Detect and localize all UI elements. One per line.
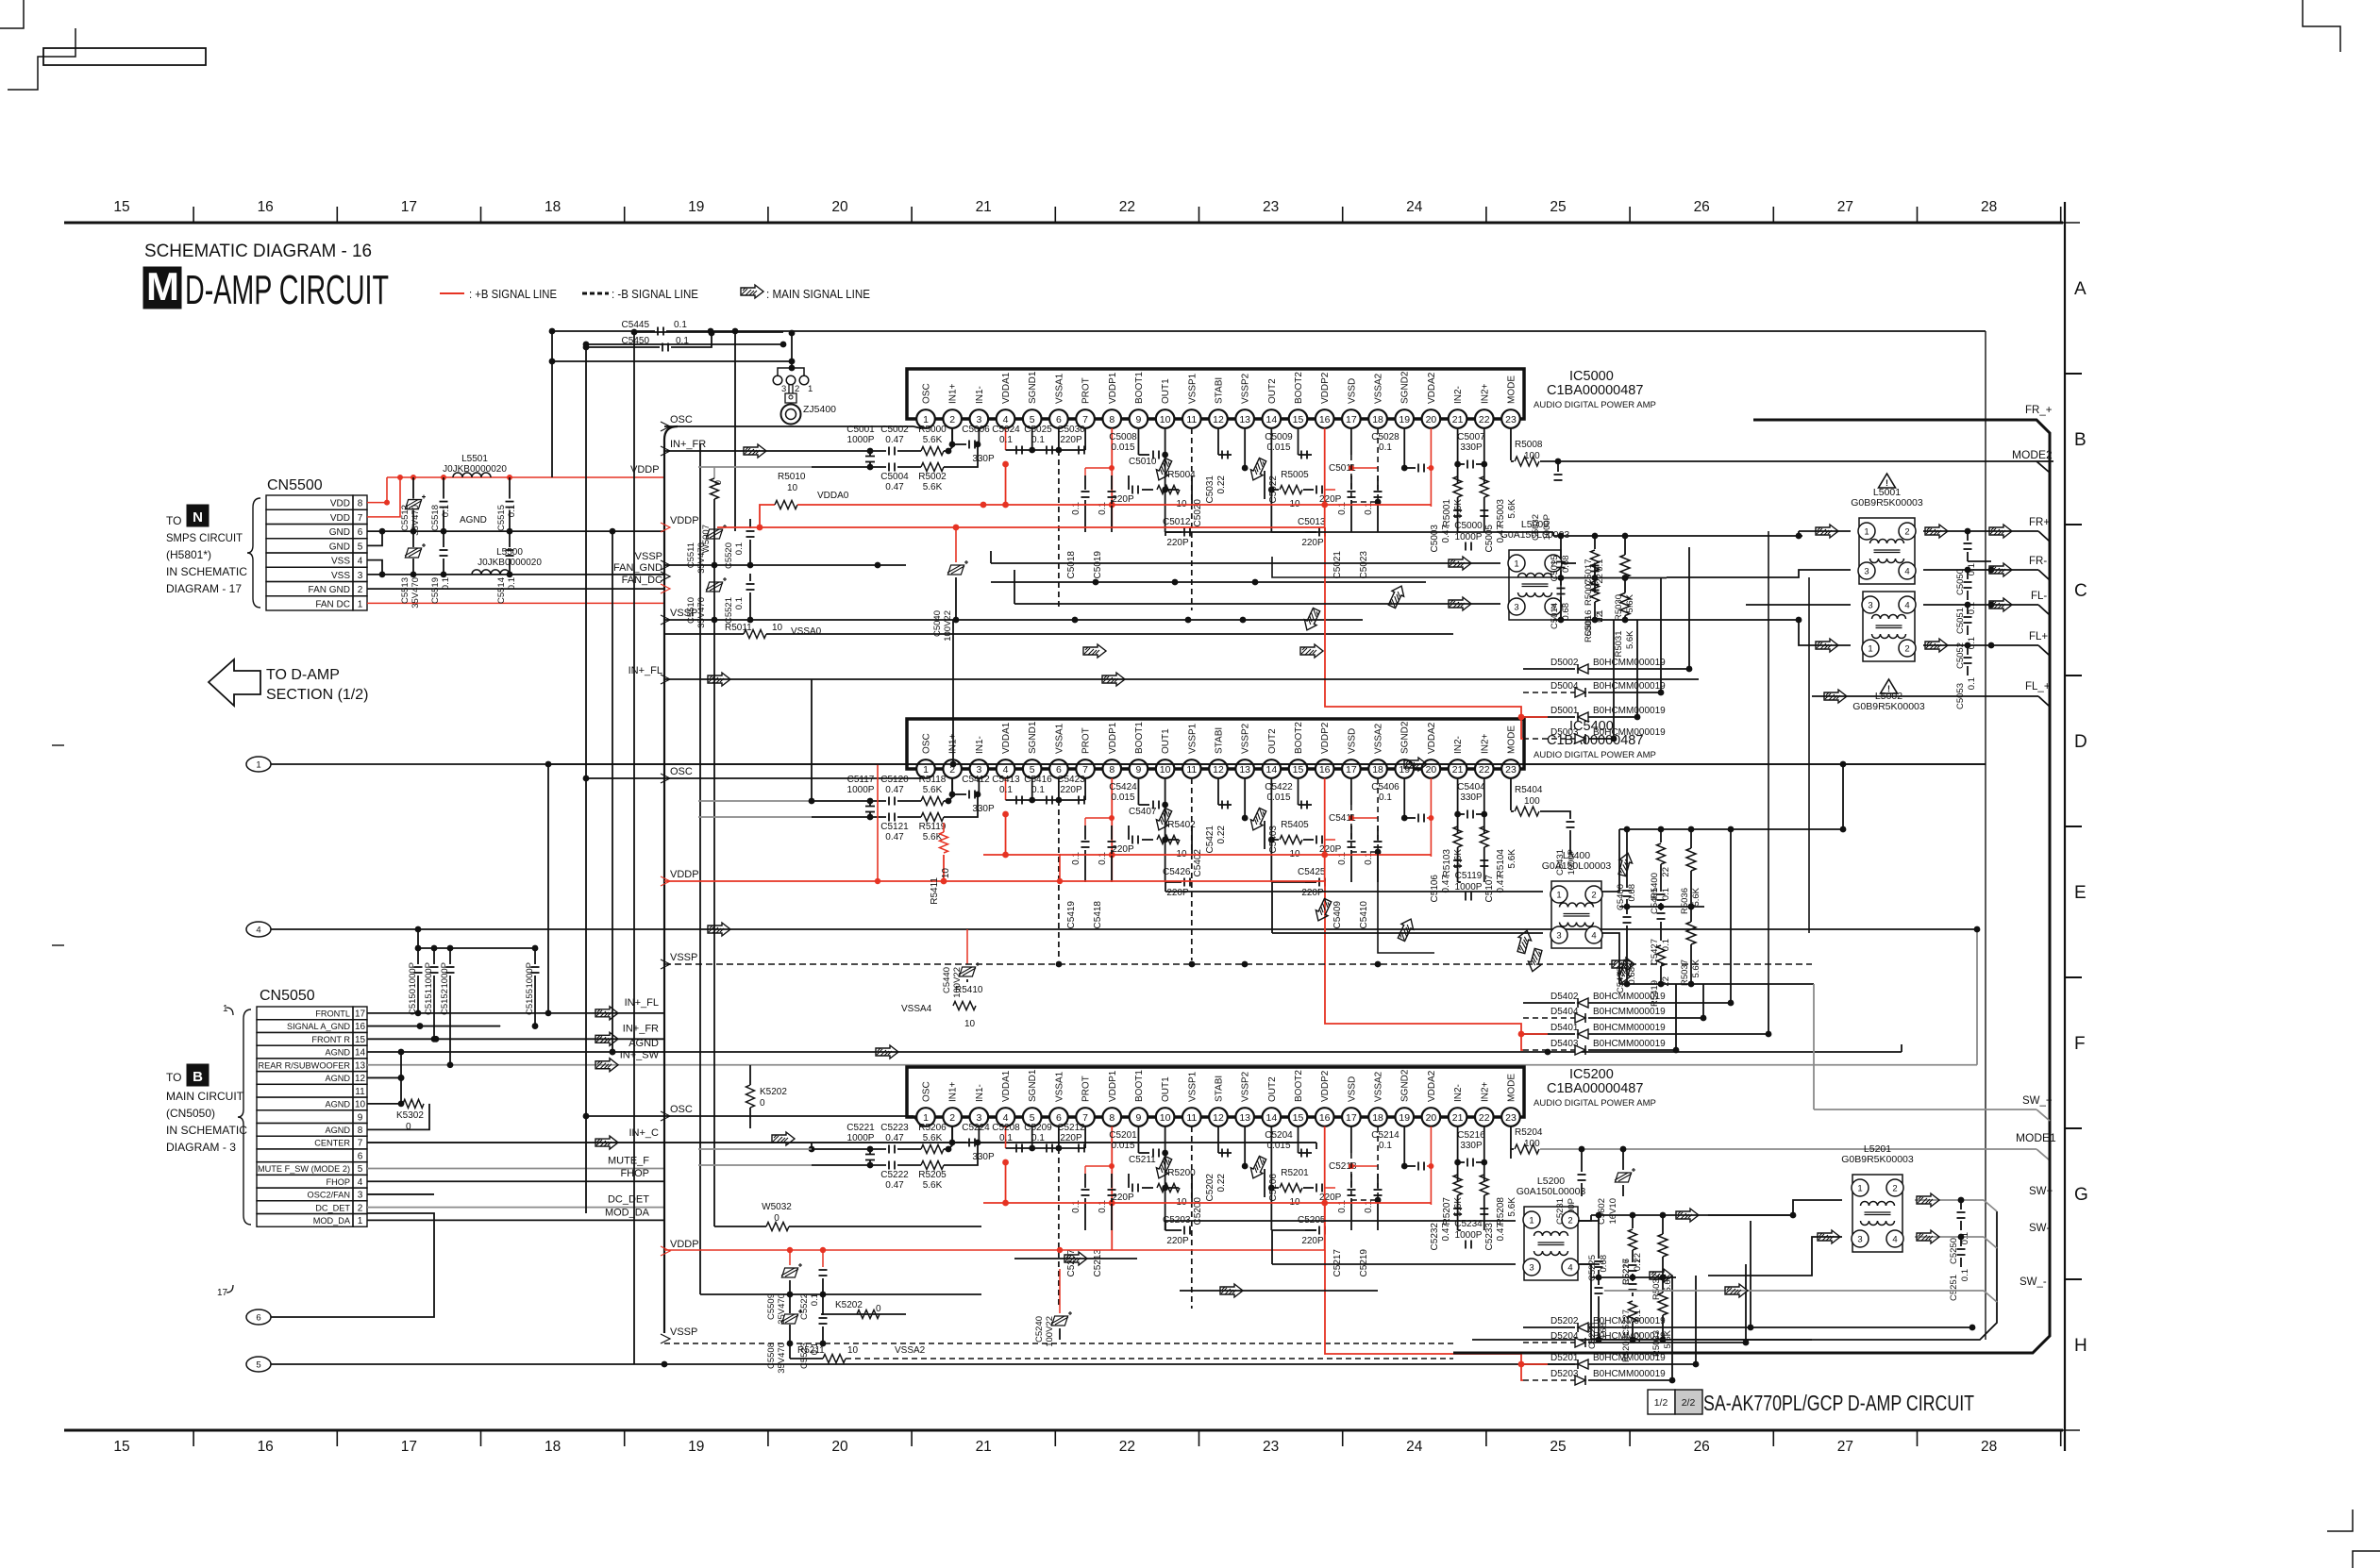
svg-text:27: 27 xyxy=(1837,1439,1853,1455)
svg-text:MODE: MODE xyxy=(1506,375,1517,404)
svg-text:100V22: 100V22 xyxy=(943,610,953,642)
svg-text:19: 19 xyxy=(688,199,704,215)
svg-text:R5036: R5036 xyxy=(1680,888,1690,914)
svg-text:R5118: R5118 xyxy=(919,775,947,785)
svg-text:1: 1 xyxy=(1868,644,1872,655)
svg-text:BOOT1: BOOT1 xyxy=(1134,372,1145,404)
svg-text:0.68: 0.68 xyxy=(1561,603,1571,621)
svg-text:5.6K: 5.6K xyxy=(923,785,943,795)
svg-text:VSSP2: VSSP2 xyxy=(1241,373,1251,404)
svg-text:REAR R/SUBWOOFER: REAR R/SUBWOOFER xyxy=(259,1060,351,1070)
svg-text:23: 23 xyxy=(1263,199,1279,215)
svg-text:3: 3 xyxy=(1868,601,1872,611)
svg-text:VSSD: VSSD xyxy=(1347,728,1357,754)
svg-text:VSSP: VSSP xyxy=(670,952,697,963)
svg-text:0.1: 0.1 xyxy=(507,505,517,517)
svg-text:28: 28 xyxy=(1981,1439,1997,1455)
svg-text:5: 5 xyxy=(358,1164,363,1175)
svg-text:B0HCMM000019: B0HCMM000019 xyxy=(1593,1331,1666,1342)
svg-text:2: 2 xyxy=(1904,644,1909,655)
svg-text:28: 28 xyxy=(1981,199,1997,215)
svg-text:23: 23 xyxy=(1505,764,1517,776)
svg-text:330P: 330P xyxy=(1460,442,1483,453)
svg-text:C5117: C5117 xyxy=(847,775,875,785)
svg-text:AGND: AGND xyxy=(325,1074,350,1083)
svg-text:5.6K: 5.6K xyxy=(1507,1197,1517,1217)
svg-text:C5216: C5216 xyxy=(1457,1130,1485,1141)
svg-text:VSSA0: VSSA0 xyxy=(791,626,822,637)
svg-text:0: 0 xyxy=(713,480,724,485)
svg-text:0.1: 0.1 xyxy=(1071,852,1081,865)
svg-text:24: 24 xyxy=(1406,199,1423,215)
svg-text:G0B9R5K00003: G0B9R5K00003 xyxy=(1852,701,1925,712)
svg-text:17: 17 xyxy=(217,1288,228,1298)
svg-text:C5018: C5018 xyxy=(1066,551,1077,579)
svg-text:0.1: 0.1 xyxy=(1364,1200,1374,1213)
svg-text:FHOP: FHOP xyxy=(326,1177,350,1187)
svg-text:16: 16 xyxy=(258,1439,274,1455)
svg-text:MODE: MODE xyxy=(1506,726,1517,754)
svg-text:C5250: C5250 xyxy=(1949,1238,1959,1264)
svg-text:13: 13 xyxy=(1239,764,1250,776)
svg-text:AGND: AGND xyxy=(325,1126,350,1135)
svg-text:FL_+: FL_+ xyxy=(2025,681,2051,692)
svg-text:21: 21 xyxy=(1452,1112,1464,1124)
svg-text:0.47: 0.47 xyxy=(1496,875,1506,893)
svg-text:0.1: 0.1 xyxy=(1595,559,1605,572)
svg-text:VDDP1: VDDP1 xyxy=(1108,372,1118,404)
svg-text:0.1: 0.1 xyxy=(1031,785,1045,795)
svg-text:IN+_FR: IN+_FR xyxy=(623,1023,659,1034)
svg-text:16: 16 xyxy=(258,199,274,215)
svg-text:FAN_GND: FAN_GND xyxy=(613,562,662,574)
svg-text:C5440: C5440 xyxy=(942,967,952,993)
svg-text:0.68: 0.68 xyxy=(1599,1255,1609,1273)
svg-text:SIGNAL A_GND: SIGNAL A_GND xyxy=(287,1022,350,1031)
svg-text:C5422: C5422 xyxy=(1265,782,1293,792)
svg-text:0.47: 0.47 xyxy=(885,482,904,492)
svg-text:MAIN CIRCUIT: MAIN CIRCUIT xyxy=(166,1090,244,1103)
svg-text:C1BA00000487: C1BA00000487 xyxy=(1547,1081,1643,1096)
svg-text:8: 8 xyxy=(358,1126,363,1136)
svg-text:2: 2 xyxy=(358,1203,363,1213)
svg-text:VDDA2: VDDA2 xyxy=(1427,1070,1437,1102)
svg-text:27: 27 xyxy=(1837,199,1853,215)
svg-text:21: 21 xyxy=(976,199,992,215)
svg-text:1: 1 xyxy=(358,1216,363,1226)
svg-text:W5032: W5032 xyxy=(762,1202,792,1212)
svg-text:: MAIN SIGNAL LINE: : MAIN SIGNAL LINE xyxy=(766,287,870,301)
svg-text:IN1+: IN1+ xyxy=(948,383,959,404)
svg-text:0.1: 0.1 xyxy=(1967,677,1977,690)
svg-text:VDDA1: VDDA1 xyxy=(1001,372,1012,404)
svg-text:OSC: OSC xyxy=(670,1104,693,1115)
svg-text:22: 22 xyxy=(1595,612,1605,623)
svg-text:6: 6 xyxy=(1056,1112,1062,1124)
svg-text:BOOT2: BOOT2 xyxy=(1294,372,1304,404)
svg-text:C5513: C5513 xyxy=(400,577,411,604)
svg-text:C5024: C5024 xyxy=(992,425,1020,435)
svg-text:SMPS CIRCUIT: SMPS CIRCUIT xyxy=(166,531,243,544)
svg-text:9: 9 xyxy=(1136,1112,1142,1124)
svg-text:0.015: 0.015 xyxy=(1266,792,1290,803)
svg-text:22: 22 xyxy=(1661,976,1671,987)
svg-text:0.1: 0.1 xyxy=(734,542,745,555)
svg-text:SGND2: SGND2 xyxy=(1400,371,1411,404)
svg-text:0.1: 0.1 xyxy=(1364,852,1374,865)
svg-text:VSSA1: VSSA1 xyxy=(1054,723,1064,754)
svg-text:1000P: 1000P xyxy=(847,435,875,445)
svg-text:R5005: R5005 xyxy=(1281,470,1309,480)
svg-text:VDDA2: VDDA2 xyxy=(1427,372,1437,404)
svg-text:330P: 330P xyxy=(1460,792,1483,803)
svg-text:C5512: C5512 xyxy=(400,505,411,531)
svg-text:13: 13 xyxy=(355,1060,366,1071)
svg-text:330P: 330P xyxy=(972,804,995,814)
svg-text:C5212: C5212 xyxy=(1057,1123,1085,1133)
svg-text:C5013: C5013 xyxy=(1298,517,1326,527)
svg-text:1: 1 xyxy=(256,760,260,771)
svg-text:C5410: C5410 xyxy=(1359,901,1369,929)
svg-text:VDDA0: VDDA0 xyxy=(817,491,849,501)
svg-text:C5509: C5509 xyxy=(766,1293,777,1320)
svg-text:R5003: R5003 xyxy=(1496,499,1506,527)
svg-text:2: 2 xyxy=(358,585,363,595)
svg-text:17: 17 xyxy=(401,1439,417,1455)
svg-text:PROT: PROT xyxy=(1081,727,1092,754)
svg-text:0.47: 0.47 xyxy=(885,1133,904,1143)
svg-text:7: 7 xyxy=(358,1139,363,1149)
svg-text:3: 3 xyxy=(976,764,981,776)
svg-text:1000P: 1000P xyxy=(1455,1230,1483,1241)
svg-text:B0HCMM000019: B0HCMM000019 xyxy=(1593,992,1666,1002)
svg-text:15: 15 xyxy=(355,1035,366,1045)
svg-text:FRONT R: FRONT R xyxy=(311,1035,350,1044)
svg-text:SW_-: SW_- xyxy=(2020,1276,2047,1288)
svg-text:AGND: AGND xyxy=(325,1048,350,1058)
svg-text:4: 4 xyxy=(1567,1263,1572,1274)
svg-text:IN1+: IN1+ xyxy=(948,1081,959,1102)
svg-text:1000P: 1000P xyxy=(847,1133,875,1143)
svg-text:5: 5 xyxy=(358,542,363,552)
svg-text:R5001: R5001 xyxy=(1442,499,1452,527)
svg-text:M: M xyxy=(146,264,179,309)
svg-text:0.1: 0.1 xyxy=(1071,1200,1081,1213)
svg-text:AGND: AGND xyxy=(325,1100,350,1109)
svg-text:L5501: L5501 xyxy=(461,454,488,464)
svg-text:16: 16 xyxy=(1319,414,1331,425)
svg-text:C5223: C5223 xyxy=(880,1123,909,1133)
svg-text:C5051: C5051 xyxy=(1955,608,1966,634)
svg-text:14: 14 xyxy=(1265,414,1277,425)
svg-text:5.6K: 5.6K xyxy=(1507,499,1517,519)
svg-text:C5428: C5428 xyxy=(1616,967,1626,993)
svg-text:8: 8 xyxy=(358,499,363,509)
svg-text:(H5801*): (H5801*) xyxy=(166,548,211,561)
svg-text:C5028: C5028 xyxy=(1371,432,1400,442)
svg-text:AUDIO DIGITAL POWER AMP: AUDIO DIGITAL POWER AMP xyxy=(1534,1098,1656,1109)
svg-text:11: 11 xyxy=(1186,414,1197,425)
svg-text:16: 16 xyxy=(1319,1112,1331,1124)
svg-text:0.1: 0.1 xyxy=(507,577,517,590)
svg-text:0: 0 xyxy=(876,1304,881,1314)
svg-text:MODE2: MODE2 xyxy=(2012,448,2053,461)
svg-text:0.1: 0.1 xyxy=(441,577,451,590)
svg-text:C5007: C5007 xyxy=(1457,432,1485,442)
svg-text:BOOT2: BOOT2 xyxy=(1294,722,1304,754)
svg-text:14: 14 xyxy=(1265,764,1277,776)
svg-text:13: 13 xyxy=(1239,1112,1250,1124)
svg-text:B0HCMM000019: B0HCMM000019 xyxy=(1593,1316,1666,1326)
svg-text:B0HCMM000019: B0HCMM000019 xyxy=(1593,1023,1666,1033)
svg-text:0.1: 0.1 xyxy=(1098,852,1108,865)
svg-text:0.1: 0.1 xyxy=(1960,1269,1970,1281)
svg-text:5: 5 xyxy=(1030,764,1035,776)
svg-text:1000P: 1000P xyxy=(424,962,434,988)
svg-text:0.47: 0.47 xyxy=(885,435,904,445)
svg-text:20: 20 xyxy=(1426,764,1437,776)
svg-text:VDDP2: VDDP2 xyxy=(1320,372,1331,404)
svg-text:C5004: C5004 xyxy=(880,472,909,482)
svg-text:IN2-: IN2- xyxy=(1453,386,1464,404)
svg-text:4: 4 xyxy=(1003,764,1009,776)
svg-text:C5518: C5518 xyxy=(430,505,441,531)
svg-text:4: 4 xyxy=(256,926,260,936)
svg-text:VSSP: VSSP xyxy=(635,551,662,562)
svg-text:C5000: C5000 xyxy=(1454,521,1483,531)
svg-text:C5421: C5421 xyxy=(1205,826,1215,854)
svg-text:SW+: SW+ xyxy=(2029,1186,2053,1197)
svg-text:9: 9 xyxy=(358,1112,363,1123)
svg-text:220P: 220P xyxy=(1301,538,1324,548)
svg-text:VDDA1: VDDA1 xyxy=(1001,722,1012,754)
svg-text:1: 1 xyxy=(923,1112,929,1124)
svg-text:OSC2/FAN: OSC2/FAN xyxy=(308,1191,350,1200)
svg-text:OSC: OSC xyxy=(670,414,693,425)
svg-text:STABI: STABI xyxy=(1214,377,1224,404)
svg-text:1: 1 xyxy=(1864,527,1869,538)
svg-text:FAN_DC: FAN_DC xyxy=(622,575,662,586)
svg-text:VSSP: VSSP xyxy=(670,1326,697,1338)
svg-text:C5020: C5020 xyxy=(1193,499,1203,527)
svg-text:VSSP2: VSSP2 xyxy=(1241,723,1251,754)
svg-text:K5302: K5302 xyxy=(396,1110,424,1121)
svg-text:C5423: C5423 xyxy=(1057,775,1085,785)
svg-text:G0A150L00003: G0A150L00003 xyxy=(1542,860,1612,872)
svg-text:220P: 220P xyxy=(1112,1193,1134,1203)
svg-text:0.22: 0.22 xyxy=(1216,1174,1227,1193)
svg-text:C5413: C5413 xyxy=(992,775,1020,785)
svg-text:VDDP2: VDDP2 xyxy=(1320,1070,1331,1102)
svg-text:18: 18 xyxy=(1372,764,1383,776)
svg-text:VDD: VDD xyxy=(330,513,350,524)
svg-text:0.47: 0.47 xyxy=(1496,1223,1506,1242)
svg-text:VSSA2: VSSA2 xyxy=(1374,373,1384,404)
svg-text:35V470: 35V470 xyxy=(696,597,707,628)
svg-text:VSSP1: VSSP1 xyxy=(1187,1071,1198,1102)
svg-text:18: 18 xyxy=(1372,414,1383,425)
svg-text:VSS: VSS xyxy=(331,571,350,581)
svg-text:C5400: C5400 xyxy=(1616,884,1626,910)
svg-text:1: 1 xyxy=(1857,1184,1862,1194)
svg-text:22: 22 xyxy=(1479,1112,1490,1124)
svg-text:OSC: OSC xyxy=(922,733,932,754)
svg-text:220P: 220P xyxy=(1166,538,1189,548)
svg-text:FR_+: FR_+ xyxy=(2025,405,2053,416)
svg-text:3: 3 xyxy=(976,414,981,425)
svg-text:B0HCMM000019: B0HCMM000019 xyxy=(1593,658,1666,668)
svg-text:OUT1: OUT1 xyxy=(1161,1076,1171,1102)
svg-text:0.1: 0.1 xyxy=(1337,852,1348,865)
svg-text:35V470: 35V470 xyxy=(696,542,707,574)
svg-text:OUT2: OUT2 xyxy=(1267,1076,1278,1102)
svg-text:B0HCMM000019: B0HCMM000019 xyxy=(1593,706,1666,716)
svg-text:11: 11 xyxy=(355,1087,365,1097)
svg-text:SGND2: SGND2 xyxy=(1400,1069,1411,1102)
svg-text:4: 4 xyxy=(1591,931,1596,942)
svg-text:IN2+: IN2+ xyxy=(1480,733,1490,754)
svg-text:G: G xyxy=(2074,1185,2088,1205)
svg-text:0.1: 0.1 xyxy=(1364,502,1374,515)
svg-text:11: 11 xyxy=(1186,1112,1197,1124)
svg-text:25: 25 xyxy=(1550,199,1566,215)
svg-text:FAN DC: FAN DC xyxy=(315,599,350,609)
svg-text:IN1-: IN1- xyxy=(975,386,985,404)
svg-text:C5005: C5005 xyxy=(1484,525,1495,553)
svg-text:G0B9R5K00003: G0B9R5K00003 xyxy=(1851,497,1923,509)
svg-text:C: C xyxy=(2074,581,2087,601)
svg-text:8: 8 xyxy=(1109,1112,1115,1124)
svg-text:C5014: C5014 xyxy=(1550,603,1560,629)
svg-text:C5031: C5031 xyxy=(1205,475,1215,504)
svg-text:0.47: 0.47 xyxy=(885,1180,904,1191)
svg-text:DC_DET: DC_DET xyxy=(315,1203,350,1212)
svg-text:D5401: D5401 xyxy=(1550,1023,1579,1033)
svg-text:3: 3 xyxy=(1556,931,1561,942)
svg-text:CN5500: CN5500 xyxy=(267,477,323,493)
svg-text:C5107: C5107 xyxy=(1484,875,1495,903)
svg-text:C5402: C5402 xyxy=(1193,849,1203,877)
svg-text:14: 14 xyxy=(1265,1112,1277,1124)
svg-text:C5030: C5030 xyxy=(1057,425,1085,435)
svg-text:0.47: 0.47 xyxy=(885,832,904,842)
svg-text:5: 5 xyxy=(1030,1112,1035,1124)
svg-text:C5416: C5416 xyxy=(1024,775,1052,785)
svg-text:4: 4 xyxy=(358,1177,363,1188)
svg-text:0.1: 0.1 xyxy=(1098,1200,1108,1213)
svg-text:C5232: C5232 xyxy=(1430,1223,1440,1251)
svg-text:IN1-: IN1- xyxy=(975,736,985,754)
svg-text:AUDIO DIGITAL POWER AMP: AUDIO DIGITAL POWER AMP xyxy=(1534,400,1656,410)
svg-text:IN+_FR: IN+_FR xyxy=(670,439,706,450)
svg-text:SGND2: SGND2 xyxy=(1400,721,1411,754)
svg-text:DIAGRAM - 17: DIAGRAM - 17 xyxy=(166,582,242,595)
svg-text:5.6K: 5.6K xyxy=(923,1133,943,1143)
svg-text:18: 18 xyxy=(1372,1112,1383,1124)
svg-text:SGND1: SGND1 xyxy=(1028,371,1038,404)
svg-text:20: 20 xyxy=(1426,1112,1437,1124)
svg-text:2: 2 xyxy=(949,414,955,425)
svg-text:IN SCHEMATIC: IN SCHEMATIC xyxy=(166,1124,247,1137)
svg-text:1: 1 xyxy=(808,384,813,394)
svg-text:F: F xyxy=(2074,1034,2086,1054)
svg-text:5.6K: 5.6K xyxy=(1691,887,1701,906)
svg-text:VSS: VSS xyxy=(331,557,350,567)
svg-text:OSC: OSC xyxy=(922,1081,932,1102)
svg-text:VSSA1: VSSA1 xyxy=(1054,1071,1064,1102)
svg-text:0.1: 0.1 xyxy=(810,1343,820,1355)
svg-text:IN+_FL: IN+_FL xyxy=(629,665,662,676)
svg-text:C5426: C5426 xyxy=(1163,867,1191,877)
svg-text:1000P: 1000P xyxy=(1455,532,1483,542)
svg-text:C5201: C5201 xyxy=(1109,1130,1137,1141)
svg-text:IN2+: IN2+ xyxy=(1480,1081,1490,1102)
svg-text:G0A150L00003: G0A150L00003 xyxy=(1517,1186,1586,1197)
svg-text:(CN5050): (CN5050) xyxy=(166,1107,215,1120)
svg-text:9: 9 xyxy=(1136,414,1142,425)
svg-text:C5226: C5226 xyxy=(1621,1259,1632,1285)
svg-text:C5152: C5152 xyxy=(440,989,450,1015)
svg-text:B0HCMM000019: B0HCMM000019 xyxy=(1593,681,1666,692)
svg-text:1: 1 xyxy=(1529,1216,1534,1226)
svg-text:FR+: FR+ xyxy=(2029,517,2050,528)
svg-text:FL+: FL+ xyxy=(2029,631,2048,642)
svg-text:0.1: 0.1 xyxy=(1031,1133,1045,1143)
svg-text:A: A xyxy=(2074,279,2087,299)
svg-text:0.1: 0.1 xyxy=(1379,792,1392,803)
svg-text:B0HCMM000019: B0HCMM000019 xyxy=(1593,727,1666,738)
svg-text:4: 4 xyxy=(1892,1235,1897,1245)
svg-text:7: 7 xyxy=(1082,1112,1088,1124)
svg-text:11: 11 xyxy=(1186,764,1197,776)
svg-text:VSSP2: VSSP2 xyxy=(1241,1071,1251,1102)
svg-text:7: 7 xyxy=(1082,764,1088,776)
svg-text:C5221: C5221 xyxy=(846,1123,875,1133)
svg-text:IN2-: IN2- xyxy=(1453,1084,1464,1102)
svg-text:6: 6 xyxy=(256,1313,260,1324)
svg-text:SGND1: SGND1 xyxy=(1028,721,1038,754)
svg-text:2/2: 2/2 xyxy=(1682,1397,1696,1409)
svg-text:10: 10 xyxy=(941,868,951,879)
svg-text:220P: 220P xyxy=(1301,888,1324,898)
svg-text:H: H xyxy=(2074,1336,2087,1356)
svg-text:FR-: FR- xyxy=(2029,556,2047,567)
svg-text:15: 15 xyxy=(1293,764,1304,776)
svg-text:2: 2 xyxy=(1591,891,1596,901)
svg-text:1: 1 xyxy=(358,599,363,609)
svg-text:C5208: C5208 xyxy=(992,1123,1020,1133)
svg-text:10: 10 xyxy=(964,1019,976,1029)
svg-text:PROT: PROT xyxy=(1081,377,1092,404)
svg-text:C5523: C5523 xyxy=(799,1343,810,1369)
svg-text:FL-: FL- xyxy=(2031,591,2047,602)
svg-text:C5119: C5119 xyxy=(1455,871,1483,881)
svg-text:4: 4 xyxy=(1904,567,1909,577)
svg-text:R5104: R5104 xyxy=(1496,849,1506,877)
svg-text:C5009: C5009 xyxy=(1265,432,1293,442)
svg-text:C5508: C5508 xyxy=(766,1343,777,1369)
svg-text:23: 23 xyxy=(1505,1112,1517,1124)
svg-text:R5201: R5201 xyxy=(1281,1168,1309,1178)
svg-text:3: 3 xyxy=(358,571,363,581)
svg-text:C5019: C5019 xyxy=(1093,551,1103,579)
svg-text:19: 19 xyxy=(1399,1112,1410,1124)
svg-text:VDDA2: VDDA2 xyxy=(1427,722,1437,754)
svg-text:16: 16 xyxy=(1319,764,1331,776)
svg-text:R5205: R5205 xyxy=(918,1170,947,1180)
svg-text:C5401: C5401 xyxy=(1650,888,1660,914)
svg-text:14: 14 xyxy=(355,1048,366,1059)
